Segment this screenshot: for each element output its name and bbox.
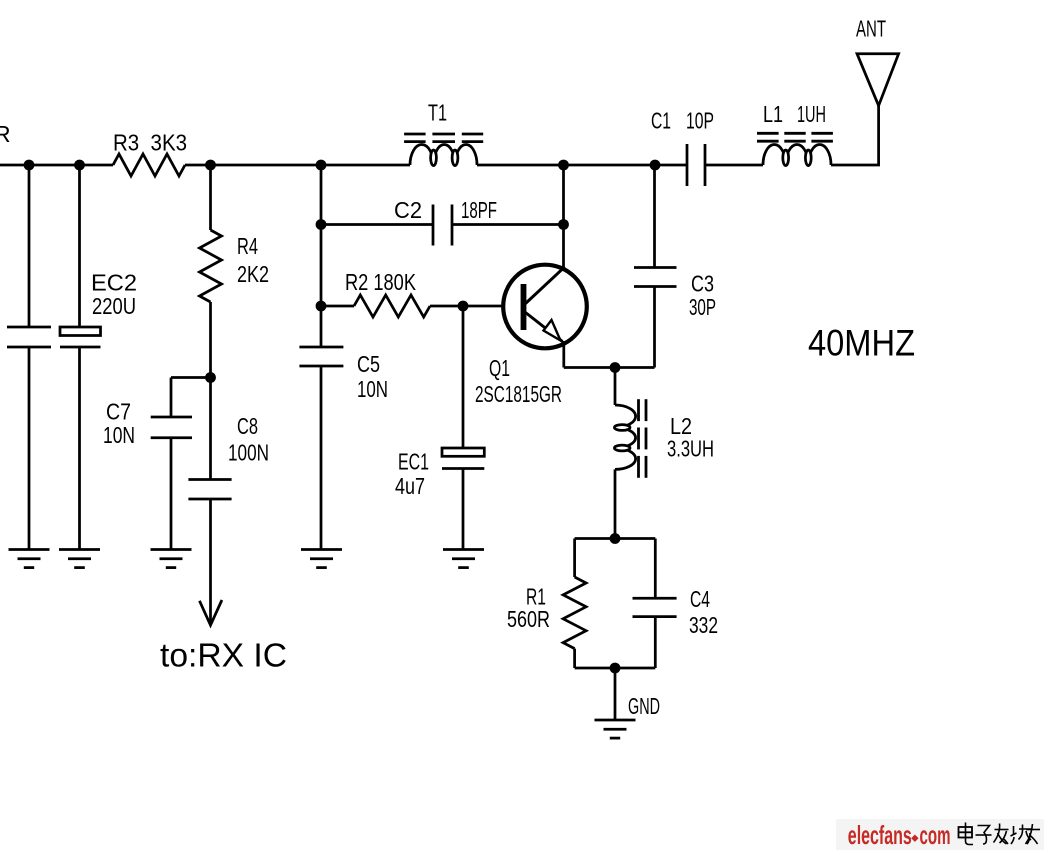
svg-text:560R: 560R bbox=[507, 606, 550, 632]
junction Q1 base / EC1 bbox=[458, 301, 469, 312]
wire EC1 lower lead bbox=[462, 469, 465, 550]
svg-text:40MHZ: 40MHZ bbox=[808, 322, 915, 364]
resistor R3 bbox=[113, 154, 185, 176]
wire R4 lower lead bbox=[209, 302, 212, 378]
ground (EC2) bbox=[59, 548, 100, 551]
svg-text:C3: C3 bbox=[691, 271, 714, 297]
transistor Q1 emitter stroke bbox=[526, 313, 563, 342]
ground GND (tank) bbox=[595, 719, 636, 722]
svg-text:30P: 30P bbox=[689, 294, 716, 320]
junction main bus x79 bbox=[74, 160, 85, 171]
svg-text:Q1: Q1 bbox=[489, 355, 510, 381]
transistor Q1 base bar bbox=[521, 284, 527, 330]
svg-text:4u7: 4u7 bbox=[395, 473, 425, 499]
inductor L1 core top line bbox=[757, 132, 779, 135]
svg-text:2K2: 2K2 bbox=[237, 261, 269, 287]
wire EC1 upper lead bbox=[462, 306, 465, 448]
svg-text:elecfans: elecfans bbox=[848, 820, 912, 850]
svg-text:10N: 10N bbox=[357, 376, 388, 402]
resistor R2 bbox=[354, 295, 430, 317]
wire main bus middle segment bbox=[185, 164, 410, 167]
wire R1 lower lead bbox=[573, 649, 576, 668]
capacitor C3 bbox=[634, 266, 677, 269]
resistor R1 bbox=[563, 577, 586, 649]
svg-text:L1: L1 bbox=[763, 101, 783, 127]
inductor L2 core right line bbox=[645, 399, 648, 421]
capacitor C1 bbox=[686, 144, 689, 186]
svg-text:C8: C8 bbox=[237, 413, 258, 439]
svg-text:C4: C4 bbox=[690, 586, 710, 612]
svg-text:C5: C5 bbox=[357, 351, 380, 377]
transformer T1 core top line bbox=[404, 133, 426, 136]
svg-text:C7: C7 bbox=[106, 399, 131, 425]
svg-text:C2: C2 bbox=[394, 197, 422, 223]
wire cap column x29 lower bbox=[28, 347, 31, 550]
wire C7 upper lead bbox=[170, 378, 173, 418]
junction R4 / C7 / C8 bbox=[205, 372, 216, 383]
capacitor EC2 (electrolytic) bbox=[60, 327, 101, 336]
wire C2 row right bbox=[452, 223, 564, 226]
wire R1 upper lead bbox=[573, 539, 576, 578]
wire C4 upper lead bbox=[654, 539, 657, 599]
transistor Q1 collector stroke bbox=[526, 267, 565, 304]
wire L1 to antenna bbox=[831, 105, 879, 165]
wire to RX IC with arrow bbox=[209, 499, 212, 622]
inductor L2 winding bbox=[615, 405, 636, 469]
wire emitter down bbox=[562, 341, 565, 368]
capacitor C2 bbox=[432, 205, 435, 246]
capacitor (unlabeled, left) bbox=[7, 326, 51, 329]
wire C7 branch horizontal bbox=[171, 376, 211, 379]
svg-text:R3 3K3: R3 3K3 bbox=[113, 130, 187, 156]
svg-text:1UH: 1UH bbox=[797, 101, 826, 127]
junction L2 / tank top bbox=[610, 533, 621, 544]
junction main bus / R3-R4 bbox=[205, 160, 216, 171]
junction emitter / L2 bbox=[610, 362, 621, 373]
ground (left cap) bbox=[9, 548, 50, 551]
capacitor C5 bbox=[299, 346, 343, 349]
wire collector column bbox=[562, 165, 565, 268]
capacitor EC1 (electrolytic) bbox=[442, 448, 484, 456]
wire main bus right segment bbox=[477, 164, 687, 167]
svg-text:2SC1815GR: 2SC1815GR bbox=[475, 381, 562, 407]
wire C1 to L1 bbox=[705, 164, 763, 167]
svg-text:R2 180K: R2 180K bbox=[345, 269, 416, 295]
svg-text:EC1: EC1 bbox=[398, 449, 429, 475]
junction main bus / collector bbox=[558, 160, 569, 171]
junction main bus / C5 column bbox=[316, 160, 327, 171]
svg-text:ANT: ANT bbox=[856, 16, 886, 42]
svg-text:10P: 10P bbox=[686, 108, 714, 134]
svg-text:com: com bbox=[920, 820, 951, 850]
ground (C5) bbox=[301, 548, 342, 551]
wire cap column x29 upper bbox=[28, 165, 31, 327]
svg-text:GND: GND bbox=[628, 693, 660, 719]
svg-text:3.3UH: 3.3UH bbox=[667, 436, 714, 462]
wire R2 to base node bbox=[430, 305, 463, 308]
junction R2 left / C5 bbox=[316, 301, 327, 312]
junction C2 right / collector bbox=[558, 219, 569, 230]
wire GND stem bbox=[614, 668, 617, 720]
wire C2 row left bbox=[321, 223, 433, 226]
inductor L2 core left line bbox=[637, 399, 640, 421]
capacitor C8 bbox=[188, 478, 231, 481]
wire base node to Q1 bbox=[463, 305, 521, 308]
wire tank bottom rail bbox=[575, 667, 656, 670]
wire R2 row left lead bbox=[321, 305, 354, 308]
wire C3 upper lead bbox=[653, 165, 656, 268]
svg-text:100N: 100N bbox=[228, 440, 269, 466]
transistor Q1 body circle bbox=[503, 265, 587, 349]
transformer T1 winding bbox=[410, 145, 477, 166]
ground (EC1) bbox=[443, 548, 484, 551]
wire EC2 column upper bbox=[78, 165, 81, 327]
wire EC2 column lower bbox=[78, 347, 81, 550]
wire C3 lower lead bbox=[653, 287, 656, 368]
wire main bus left segment bbox=[0, 164, 113, 167]
capacitor C4 bbox=[633, 597, 677, 600]
svg-text:18PF: 18PF bbox=[461, 197, 497, 223]
svg-text:to:RX IC: to:RX IC bbox=[160, 638, 287, 675]
svg-text:10N: 10N bbox=[103, 422, 135, 448]
wire C4 lower lead bbox=[654, 617, 657, 668]
wire C7 lower lead bbox=[170, 438, 173, 550]
resistor R4 bbox=[200, 230, 222, 302]
junction tank bottom / GND bbox=[610, 663, 621, 674]
watermark background strip bbox=[836, 819, 1044, 850]
antenna ANT symbol bbox=[857, 54, 899, 106]
svg-text:220U: 220U bbox=[92, 293, 136, 319]
capacitor C7 bbox=[151, 416, 192, 419]
wire L2 lower lead bbox=[614, 469, 617, 538]
wire tank top rail bbox=[575, 537, 656, 540]
svg-text:R: R bbox=[0, 121, 11, 147]
wire emitter row bbox=[564, 366, 655, 369]
wire R4 upper lead bbox=[209, 165, 212, 230]
svg-text:EC2: EC2 bbox=[91, 270, 137, 296]
wire column x321 upper bbox=[320, 165, 323, 347]
svg-text:R4: R4 bbox=[237, 233, 258, 259]
svg-text:C1: C1 bbox=[651, 108, 671, 134]
svg-text:T1: T1 bbox=[428, 100, 447, 126]
junction main bus / C1-C3 bbox=[650, 160, 661, 171]
junction main bus x29 bbox=[24, 160, 35, 171]
wire column x321 lower bbox=[320, 366, 323, 550]
transformer T1 core bottom line bbox=[404, 140, 426, 143]
ground (C7) bbox=[151, 548, 192, 551]
svg-text:332: 332 bbox=[689, 612, 718, 638]
wire L2 upper lead bbox=[614, 368, 617, 406]
junction C2 left bbox=[316, 219, 327, 230]
transistor Q1 emitter arrowhead bbox=[544, 320, 561, 341]
wire C8 upper lead bbox=[209, 378, 212, 480]
inductor L1 core bottom line bbox=[757, 140, 779, 143]
watermark Chinese characters bbox=[959, 823, 1041, 845]
inductor L1 winding bbox=[763, 144, 831, 165]
